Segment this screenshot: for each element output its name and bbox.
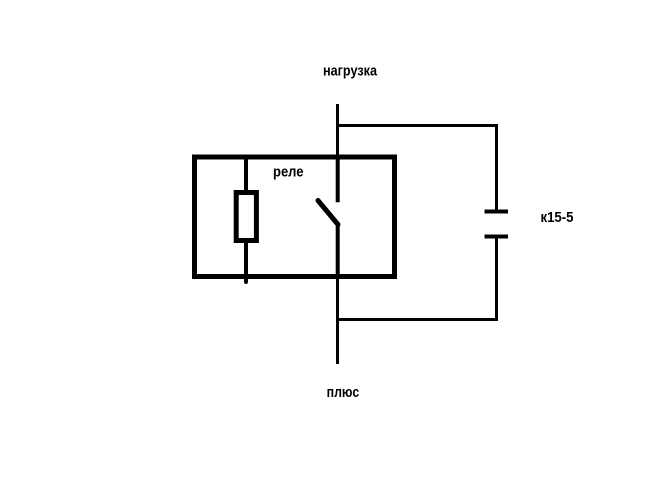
switch S1 blade (open diagonal) [318,201,338,225]
svg-text:плюс: плюс [327,384,360,401]
switch S1 upper contact [336,157,340,202]
capacitor C1 top plate [485,210,509,214]
relay coil (winding rectangle) [236,193,256,241]
wire: bottom horizontal from capacitor to plus lead [336,318,498,321]
switch S1 lower contact [336,225,340,280]
wire: relay coil bottom lead [244,240,248,282]
svg-text:реле: реле [273,164,304,181]
capacitor C1 bottom plate [485,235,509,239]
wire: capacitor top lead [495,124,498,211]
svg-text:нагрузка: нагрузка [323,63,378,80]
wire: load terminal vertical lead [336,104,339,159]
wire: relay coil top lead [244,157,248,193]
wire: plus terminal vertical lead [336,277,339,364]
svg-text:к15-5: к15-5 [541,209,574,226]
wire: capacitor bottom lead [495,238,498,321]
wire: top horizontal to capacitor [336,124,498,127]
relay K1 enclosure box [195,157,395,277]
